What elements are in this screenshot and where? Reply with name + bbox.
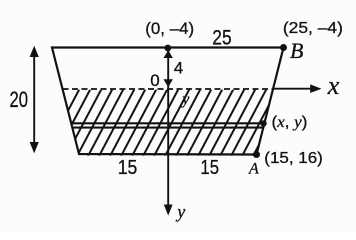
dashed x-axis segment inside trapezoid (63, 88, 274, 90)
svg-text:y: y (180, 91, 190, 108)
hatched region (shaded area of trapezoid below x-axis) (43, 88, 289, 158)
svg-text:(15, 16): (15, 16) (264, 150, 323, 167)
y-axis arrowhead (164, 205, 173, 216)
svg-text:x: x (327, 71, 340, 100)
svg-text:0: 0 (150, 71, 159, 90)
y-axis line (167, 48, 169, 206)
svg-text:A: A (248, 161, 259, 178)
left 20 dimension double arrow (33, 48, 35, 151)
elemental strip lower line (72, 127, 263, 129)
svg-text:B: B (290, 38, 303, 63)
svg-text:(25, –4): (25, –4) (283, 20, 343, 37)
svg-text:4: 4 (174, 59, 183, 78)
svg-text:(0, –4): (0, –4) (145, 19, 194, 38)
svg-text:y: y (175, 202, 185, 222)
elemental strip upper line (71, 122, 264, 124)
dot at A (15,16) (253, 151, 260, 158)
trapezoid outline (52, 48, 284, 155)
svg-text:(x, y): (x, y) (272, 114, 308, 131)
svg-text:15: 15 (118, 157, 138, 179)
solid x-axis with arrowhead (272, 88, 311, 90)
svg-text:15: 15 (200, 157, 219, 179)
depth-4 double arrow: down head (164, 79, 173, 87)
svg-text:20: 20 (10, 87, 29, 112)
svg-text:25: 25 (212, 26, 231, 49)
dot at B (25,-4) (280, 44, 287, 51)
dot at (x,y) (260, 120, 266, 126)
depth-4 double arrow: up head (164, 50, 173, 58)
dot at (0,-4) (164, 45, 171, 52)
